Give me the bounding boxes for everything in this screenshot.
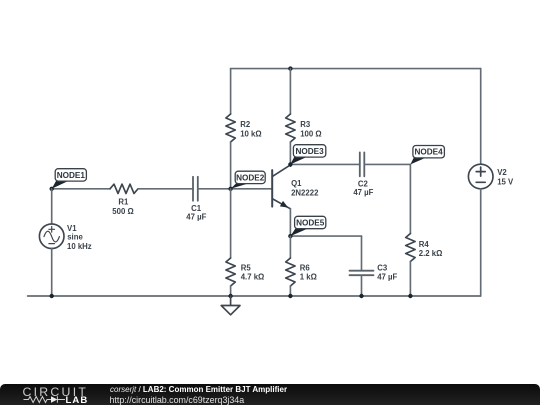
CircuitLab logo (23, 385, 89, 399)
svg-text:sine: sine (67, 233, 83, 242)
capacitor C3 (350, 263, 398, 281)
resistor R2 (226, 114, 262, 142)
node junction C3 ground (359, 294, 363, 298)
wire NODE2 to Q1 base (231, 188, 273, 190)
node junction top rail R3 (288, 66, 292, 70)
capacitor C2 (353, 152, 373, 197)
wire R2 bottom (230, 142, 232, 189)
node label NODE3 (290, 145, 325, 165)
wire bottom rail (28, 295, 481, 297)
svg-text:C3: C3 (377, 263, 388, 272)
voltage source V1 (39, 224, 91, 251)
svg-text:47 µF: 47 µF (353, 188, 373, 197)
wire R3 bottom (289, 142, 291, 164)
node label NODE2 (231, 171, 266, 189)
svg-text:R4: R4 (419, 240, 430, 249)
svg-text:R6: R6 (300, 263, 311, 272)
svg-text:V1: V1 (67, 224, 77, 233)
svg-text:10 kΩ: 10 kΩ (240, 129, 261, 138)
footer bar (0, 384, 540, 406)
svg-text:47 µF: 47 µF (377, 273, 397, 282)
svg-text:V2: V2 (497, 168, 507, 177)
ground (221, 296, 240, 315)
wire V1 top (51, 189, 53, 224)
svg-text:47 µF: 47 µF (186, 212, 206, 221)
node junction NODE3 (288, 162, 292, 166)
wire R2 top (230, 69, 232, 114)
svg-text:100 Ω: 100 Ω (300, 129, 321, 138)
svg-text:Q1: Q1 (291, 179, 302, 188)
wire C1 to NODE2 (198, 188, 231, 190)
svg-text:NODE4: NODE4 (414, 148, 443, 157)
wire C2 to NODE4 (364, 163, 410, 165)
wire NODE3 to C2 (290, 163, 359, 165)
svg-text:NODE2: NODE2 (236, 173, 265, 182)
wire Q1 collector (289, 164, 291, 166)
wire R5 bottom (230, 286, 232, 296)
wire R5 top (230, 189, 232, 258)
wire V1 bottom (51, 249, 53, 297)
svg-text:R3: R3 (300, 120, 311, 129)
svg-text:R2: R2 (240, 120, 251, 129)
node junction R6 ground (288, 294, 292, 298)
wire top rail (231, 68, 481, 70)
wire R6 top (289, 236, 291, 258)
wire C3 top (361, 236, 363, 271)
wire NODE4 to R4 (409, 164, 411, 233)
svg-text:15 V: 15 V (497, 177, 514, 186)
svg-text:2N2222: 2N2222 (291, 188, 319, 197)
wire R4 bottom (409, 262, 411, 297)
svg-text:R5: R5 (241, 263, 252, 272)
svg-text:NODE1: NODE1 (57, 171, 86, 180)
wire NODE1 to R1 (52, 188, 110, 190)
svg-text:NODE5: NODE5 (296, 219, 325, 228)
node junction V1 ground (50, 294, 54, 298)
svg-text:NODE3: NODE3 (295, 147, 324, 156)
svg-text:4.7 kΩ: 4.7 kΩ (241, 273, 265, 282)
svg-text:R1: R1 (118, 197, 129, 206)
resistor R6 (286, 258, 317, 286)
resistor R1 (110, 184, 138, 216)
wire Q1 emitter (289, 209, 291, 237)
node label NODE4 (410, 146, 444, 165)
resistor R3 (286, 114, 322, 142)
voltage source V2 (468, 164, 514, 189)
resistor R5 (226, 258, 264, 286)
svg-text:C2: C2 (358, 179, 369, 188)
node junction NODE5 (288, 234, 292, 238)
svg-text:1 kΩ: 1 kΩ (300, 273, 317, 282)
node label NODE5 (290, 216, 325, 236)
node junction NODE2 (228, 187, 232, 191)
node junction R4 ground (408, 294, 412, 298)
wire R3 top (289, 69, 291, 114)
wire NODE5 to C3 (290, 235, 361, 237)
node label NODE1 (52, 169, 87, 189)
wire C3 bottom (361, 275, 363, 296)
wire V2 top (480, 69, 482, 165)
wire V2 bottom (480, 189, 482, 296)
wire R6 bottom (289, 286, 291, 296)
node junction NODE1 (50, 187, 54, 191)
svg-text:2.2 kΩ: 2.2 kΩ (419, 249, 443, 258)
svg-text:500 Ω: 500 Ω (112, 207, 133, 216)
capacitor C1 (186, 177, 206, 222)
svg-text:10 kHz: 10 kHz (67, 242, 92, 251)
transistor Q1 (272, 165, 319, 209)
node junction R5 ground (228, 294, 232, 298)
footer url text (110, 395, 245, 405)
resistor R4 (406, 234, 443, 262)
wire R1 to C1 (138, 188, 193, 190)
footer title text (110, 385, 287, 394)
